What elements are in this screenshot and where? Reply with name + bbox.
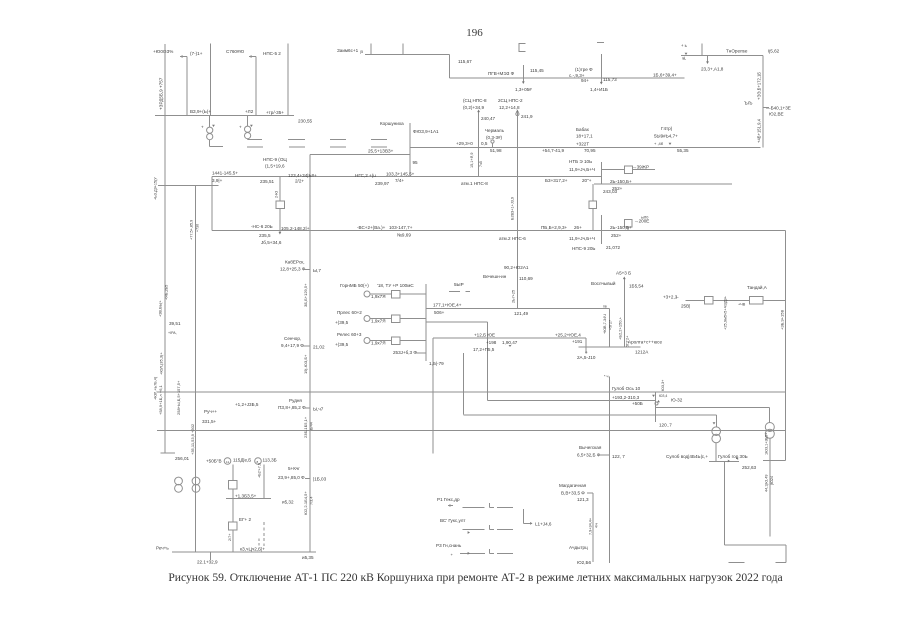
svg-text:115,45: 115,45 — [530, 68, 544, 73]
legend connector — [522, 509, 524, 523]
line 414 right — [464, 414, 717, 416]
svg-text:Бабах: Бабах — [576, 127, 590, 132]
svg-text:+50Б: +50Б — [632, 401, 643, 406]
svg-text:|Ю24: |Ю24 — [770, 476, 774, 485]
wire drop 724 L-shape — [723, 461, 725, 545]
svg-text:Сенчор,: Сенчор, — [284, 336, 301, 341]
svg-text:Ю2,Б6: Ю2,Б6 — [577, 560, 591, 565]
wire vertical trunk left — [309, 154, 311, 552]
svg-text:121,49: 121,49 — [514, 311, 528, 316]
svg-text:51,98: 51,98 — [490, 148, 502, 153]
svg-text:2Ь-150,Б+: 2Ь-150,Б+ — [610, 225, 632, 230]
transformer coil TL2 — [245, 126, 251, 132]
svg-text:+77,5+,85,9: +77,5+,85,9 — [190, 220, 194, 240]
svg-text:НГС,2 +(u: НГС,2 +(u — [355, 173, 376, 178]
svg-text:кЗ,чЦч2,Б|+: кЗ,чЦч2,Б|+ — [240, 547, 265, 552]
svg-text:L1+J4,6: L1+J4,6 — [535, 521, 552, 526]
svg-text:243,03: 243,03 — [603, 189, 617, 194]
transformer T2 — [192, 477, 200, 485]
svg-text:Рисунок 59. Отключение АТ-1 ПС: Рисунок 59. Отключение АТ-1 ПС 220 кВ Ко… — [168, 571, 782, 584]
svg-text:2СЦ НПС-2: 2СЦ НПС-2 — [498, 98, 523, 103]
svg-text:+Ю0ОЗ%: +Ю0ОЗ% — [153, 49, 173, 54]
svg-text:ВЗ,9+(Ь(+: ВЗ,9+(Ь(+ — [190, 109, 211, 114]
svg-text:94+: 94+ — [581, 78, 589, 83]
svg-text:+35,11,53,9 +302: +35,11,53,9 +302 — [190, 423, 195, 455]
svg-text:—Б40,1+3Е: —Б40,1+3Е — [766, 106, 791, 111]
svg-text:+1,2+J3Б,5: +1,2+J3Б,5 — [235, 402, 259, 407]
wire drop 432 — [432, 338, 434, 454]
svg-text:+ЮВ,7-34Ч: +ЮВ,7-34Ч — [603, 314, 607, 334]
svg-text:+12,Б ЮЕ: +12,Б ЮЕ — [474, 333, 495, 338]
breaker Q7 — [228, 522, 237, 530]
bus 220kV lower A — [157, 391, 785, 393]
svg-text:ПБ,Б+2,9,3+: ПБ,Б+2,9,3+ — [541, 225, 568, 230]
svg-text:* ч: * ч — [604, 375, 609, 379]
svg-text:Ю3,3+: Ю3,3+ — [661, 379, 665, 391]
svg-text:+Б2,2+150,+: +Б2,2+150,+ — [618, 316, 623, 340]
wire tick 498 — [226, 498, 271, 500]
svg-text:+29,3+0: +29,3+0 — [456, 141, 473, 146]
svg-text:+тр/-35+: +тр/-35+ — [266, 110, 284, 115]
svg-text:5ЫР: 5ЫР — [454, 282, 464, 287]
wire tap with bracket — [522, 65, 524, 83]
svg-text:С760#Ю: С760#Ю — [226, 49, 245, 54]
svg-text:6,5+32,Б Ф: 6,5+32,Б Ф — [577, 453, 601, 458]
wire V1 end tick — [161, 452, 176, 454]
svg-text:103,3+145,5+: 103,3+145,5+ — [386, 171, 415, 176]
svg-text:атм.1 НПС-8: атм.1 НПС-8 — [461, 181, 488, 186]
svg-text:26+: 26+ — [574, 225, 582, 230]
svg-text:+25,2+ЮЕ,4: +25,2+ЮЕ,4 — [555, 333, 581, 338]
svg-text:2/2+: 2/2+ — [295, 178, 304, 183]
line to Тандай — [686, 299, 705, 301]
svg-text:1Б,6+39,4+: 1Б,6+39,4+ — [653, 73, 677, 78]
svg-text:+3+2,3̶: +3+2,3̶ — [663, 294, 679, 299]
svg-text:+4Б+151,9,4: +4Б+151,9,4 — [757, 118, 762, 143]
svg-text:7/3,4: 7/3,4 — [310, 497, 314, 505]
bus 220kV lower B — [157, 430, 785, 432]
svg-text:1,4+И1Б: 1,4+И1Б — [590, 87, 608, 92]
svg-text:+Б2'+7,9: +Б2'+7,9 — [258, 463, 262, 478]
wire tap below — [600, 215, 602, 244]
breaker Q2 — [589, 201, 597, 209]
svg-text:Ю-32: Ю-32 — [671, 397, 683, 402]
wire dashdot drop — [263, 522, 265, 546]
wire vertical feeder V5 — [287, 43, 289, 115]
svg-text:Рудня: Рудня — [289, 398, 302, 403]
svg-text:ЕГ+ 2: ЕГ+ 2 — [239, 517, 252, 522]
svg-text:НПС-9 20Ь: НПС-9 20Ь — [572, 246, 595, 251]
svg-text:1,3+05#: 1,3+05# — [515, 87, 532, 92]
meter M1 — [224, 458, 231, 465]
wire corner drop — [448, 55, 450, 79]
svg-text:+ЗРД5Б,9 +757: +ЗРД5Б,9 +757 — [159, 77, 164, 110]
svg-text:Заим6с+1: Заим6с+1 — [337, 48, 359, 53]
svg-text:+191: +191 — [572, 339, 583, 344]
autotransformer AT1 — [712, 427, 721, 436]
device Тандай box — [750, 297, 763, 305]
svg-text:-ВС+2+(Ва.)+: -ВС+2+(Ва.)+ — [357, 225, 386, 230]
svg-text:177,1+ЮЕ,4+: 177,1+ЮЕ,4+ — [433, 303, 462, 308]
svg-text:ыЛ0: ыЛ0 — [641, 216, 648, 220]
svg-text:2Ь-150,Б+: 2Ь-150,Б+ — [610, 179, 632, 184]
svg-text:1Б5,54: 1Б5,54 — [629, 284, 644, 289]
svg-text:11: 11 — [226, 460, 229, 464]
wire long vertical right — [762, 55, 764, 147]
wire Аролта line — [579, 346, 641, 348]
breaker Q6 — [228, 480, 237, 489]
svg-text:+: + — [239, 125, 242, 130]
wire tick 460 — [763, 460, 785, 462]
svg-text:17,2+П5,5: 17,2+П5,5 — [473, 347, 495, 352]
svg-text:2А,5-J10: 2А,5-J10 — [577, 355, 596, 360]
svg-text:ПГВ+МЭЗ Ф: ПГВ+МЭЗ Ф — [488, 71, 515, 76]
svg-text:+ІРА,: +ІРА, — [168, 331, 177, 335]
svg-text:240,47: 240,47 — [481, 116, 495, 121]
svg-text:70,95: 70,95 — [584, 148, 596, 153]
autotransformer AT2 — [765, 423, 774, 432]
bus top middle — [365, 54, 450, 56]
svg-text:'18, ТУ +Р 100мС: '18, ТУ +Р 100мС — [377, 283, 414, 288]
svg-text:1212А: 1212А — [635, 349, 649, 354]
wire drop 463 — [463, 353, 465, 415]
svg-text:атм.2 НПС-6: атм.2 НПС-6 — [499, 236, 526, 241]
wire drop Q2 — [592, 184, 594, 230]
svg-text:ЪЉ: ЪЉ — [744, 101, 753, 106]
svg-text:7/4+: 7/4+ — [395, 178, 404, 183]
wire drop 586 — [585, 338, 587, 352]
svg-text:+ ,4б: + ,4б — [654, 141, 664, 146]
svg-text:12,2+14,8: 12,2+14,8 — [499, 105, 520, 110]
svg-text:22.1+32,9: 22.1+32,9 — [197, 560, 218, 565]
wire Коршуниха drop — [409, 123, 411, 177]
svg-text:115,73: 115,73 — [603, 77, 617, 82]
svg-text:+ЗВ,БЬ(+: +ЗВ,БЬ(+ — [159, 300, 163, 317]
svg-text:+322Т: +322Т — [576, 142, 589, 147]
svg-text:(7-)1+: (7-)1+ — [190, 51, 203, 56]
svg-text:+5Г27: +5Г27 — [609, 320, 613, 330]
svg-text:-НС-6 20Ь: -НС-6 20Ь — [251, 224, 273, 229]
svg-text:Jб,5+34,6: Jб,5+34,6 — [261, 240, 282, 245]
wire vertical feeder V1 — [164, 44, 166, 453]
wire dash segment — [449, 291, 460, 293]
svg-text:7ч5: 7ч5 — [479, 161, 483, 167]
svg-text:Реч+ь: Реч+ь — [156, 546, 169, 551]
svg-text:+ЯБ,2Б5: +ЯБ,2Б5 — [165, 285, 169, 300]
svg-text:121,3: 121,3 — [577, 497, 589, 502]
svg-text:2/7+: 2/7+ — [228, 533, 232, 541]
wire dash 562 — [729, 561, 745, 563]
bus station 308 — [426, 308, 609, 310]
bus 110kV top — [449, 77, 684, 79]
wire drop НПС-8 — [478, 111, 480, 177]
wire tap НТБ — [600, 162, 602, 184]
wire drop Вослчывый — [623, 279, 625, 347]
svg-text:+50Б"В: +50Б"В — [206, 459, 222, 464]
svg-text:2Ь7+25: 2Ь7+25 — [512, 290, 516, 303]
branch tick Б40 — [763, 107, 769, 109]
wire vertical feeder V2 with arrow — [186, 57, 188, 116]
svg-text:(СЦ НПС-8: (СЦ НПС-8 — [463, 98, 487, 103]
breaker Q5 — [704, 296, 713, 304]
svg-text:+Л2: +Л2 — [245, 109, 254, 114]
svg-text:18+17,1: 18+17,1 — [576, 134, 593, 139]
svg-text:19|-ЮЗ,Б+: 19|-ЮЗ,Б+ — [303, 354, 308, 374]
bus 110kV left — [155, 115, 294, 117]
svg-text:15,1+Я,9: 15,1+Я,9 — [470, 152, 474, 168]
svg-text:(0,3-3#): (0,3-3#) — [486, 135, 503, 140]
svg-text:и5,35: и5,35 — [302, 555, 314, 560]
wire drop Вычегская — [609, 377, 611, 563]
svg-text:103-147,7+: 103-147,7+ — [389, 225, 413, 230]
svg-text:258+Ы,Б,5+157,5+: 258+Ы,Б,5+157,5+ — [176, 380, 181, 415]
svg-text:Коршуниха: Коршуниха — [380, 121, 404, 126]
svg-text:25В|: 25В| — [681, 304, 690, 309]
svg-text:23Б-1Б5,1+: 23Б-1Б5,1+ — [303, 416, 308, 438]
wire drop 487 — [487, 322, 489, 401]
svg-text:2-Ю: 2-Ю — [275, 191, 279, 198]
svg-text:239,97: 239,97 — [375, 181, 389, 186]
wire stub tick1 — [370, 43, 372, 54]
svg-text:Ю2,2-1Б4,5+: Ю2,2-1Б4,5+ — [303, 491, 308, 515]
svg-text:+193,2-310,3: +193,2-310,3 — [612, 395, 640, 400]
svg-text:1,Б|-79: 1,Б|-79 — [429, 361, 444, 366]
wire drop meter1 — [232, 465, 234, 553]
svg-text:+1,3БЗ,5+: +1,3БЗ,5+ — [235, 494, 257, 499]
bus 110kV middle — [212, 176, 602, 178]
svg-text:23,9+,85,0 Ф: 23,9+,85,0 Ф — [278, 475, 305, 480]
svg-text:ПЗ,8+,85,2 Ф: ПЗ,8+,85,2 Ф — [278, 405, 306, 410]
svg-text:1,9х7Я: 1,9х7Я — [371, 319, 386, 324]
wire drop 716 — [715, 415, 717, 427]
svg-text:4/ч: 4/ч — [595, 523, 599, 528]
wire tick bottom — [209, 552, 211, 560]
svg-text:(1,5+19,6: (1,5+19,6 — [265, 164, 285, 169]
svg-text:196: 196 — [466, 27, 483, 39]
svg-text:Прлес 60+2: Прлес 60+2 — [337, 310, 362, 315]
wire left link — [158, 184, 219, 186]
svg-text:11,9+Jч,Б+Ч: 11,9+Jч,Б+Ч — [569, 236, 595, 241]
svg-text:Б2ВЗ+1+J3,9: Б2ВЗ+1+J3,9 — [511, 197, 515, 220]
wire vertical feeder V4 with arrow — [255, 57, 257, 116]
wire drop НПС-2 long — [516, 111, 518, 309]
svg-text:90,2+Ю2А1: 90,2+Ю2А1 — [504, 265, 529, 270]
svg-text:Ы,7: Ы,7 — [313, 268, 321, 273]
svg-text:5+Кчг: 5+Кчг — [288, 466, 300, 471]
svg-text:3,9|+: 3,9|+ — [212, 178, 223, 183]
svg-text:20"+: 20"+ — [582, 178, 592, 183]
svg-text:1441-145,5+: 1441-145,5+ — [212, 170, 238, 175]
line 400 right — [488, 399, 656, 401]
svg-text:Ij5,62: Ij5,62 — [768, 49, 780, 54]
breaker Q4 — [625, 220, 633, 227]
svg-text:ФЮЗ,9+1А1: ФЮЗ,9+1А1 — [413, 129, 439, 134]
svg-text:21,072: 21,072 — [606, 245, 620, 250]
svg-text:→39ЖР: →39ЖР — [632, 165, 649, 170]
svg-text:55,35: 55,35 — [677, 148, 689, 153]
meter M2 — [255, 458, 262, 465]
svg-text:95: 95 — [413, 160, 419, 165]
node cluster — [652, 395, 655, 397]
svg-text:Р3 Гн,снань: Р3 Гн,снань — [436, 543, 462, 548]
svg-text:+54,7-41,9: +54,7-41,9 — [542, 148, 565, 153]
transformer T1 — [175, 477, 183, 485]
svg-text:115Дle,Б: 115Дle,Б — [233, 458, 251, 463]
svg-text:0,5: 0,5 — [481, 141, 488, 146]
svg-text:Р1 Гекс,др: Р1 Гекс,др — [437, 497, 460, 502]
svg-text:Аролта+с++юсе: Аролта+с++юсе — [628, 339, 662, 344]
svg-text:+ЮЛ,+Ь7Б,4(: +ЮЛ,+Ь7Б,4( — [154, 376, 158, 400]
svg-text:1,9х7Я: 1,9х7Я — [371, 294, 386, 299]
svg-text:Гулоб гор 30Ь: Гулоб гор 30Ь — [718, 454, 748, 459]
svg-text:12,8+25,3 Ф: 12,8+25,3 Ф — [280, 267, 306, 272]
breaker Q1 — [276, 201, 285, 209]
svg-text:11,9+Jч,Б+Ч: 11,9+Jч,Б+Ч — [569, 167, 595, 172]
svg-text:Вычегская: Вычегская — [579, 445, 602, 450]
svg-text:ТнОрелsе: ТнОрелsе — [726, 49, 748, 54]
svg-text:7,9+34,4+: 7,9+34,4+ — [589, 517, 593, 535]
svg-text:+ ь: + ь — [681, 43, 688, 48]
wire stub tick2 — [402, 43, 404, 54]
svg-text:21,02: 21,02 — [313, 345, 325, 350]
wire right trunk down — [784, 231, 786, 461]
bus top right — [681, 54, 763, 56]
bus 110kV second — [594, 183, 732, 185]
svg-text:НТБ Э 10Ь: НТБ Э 10Ь — [569, 159, 592, 164]
svg-text:Ю2,ВЕ: Ю2,ВЕ — [769, 112, 784, 117]
svg-text:+(39,5: +(39,5 — [335, 320, 349, 325]
svg-text:110,69: 110,69 — [519, 276, 533, 281]
svg-text:+(39,5: +(39,5 — [335, 342, 349, 347]
svg-text:9,4+17,9 Ф: 9,4+17,9 Ф — [281, 343, 304, 348]
bus 110kV third — [212, 230, 786, 232]
load arrow 23,3 — [707, 55, 709, 62]
svg-text:1Ю3,1+3Б5+: 1Ю3,1+3Б5+ — [765, 432, 769, 455]
wire drop 609 end — [609, 309, 611, 347]
svg-text:ГорнМБ 50(+): ГорнМБ 50(+) — [340, 283, 369, 288]
svg-text:Сулоб вод|4Б4Ь|с,+: Сулоб вод|4Б4Ь|с,+ — [666, 454, 708, 459]
svg-text:113,3Б: 113,3Б — [263, 458, 277, 463]
wire drop switch SW1 — [279, 177, 281, 233]
svg-text:+58,9+1Б,л +6,1: +58,9+1Б,л +6,1 — [158, 384, 163, 415]
svg-text:Б3+317,2+: Б3+317,2+ — [545, 178, 568, 183]
svg-text:Магдагачная: Магдагачная — [559, 483, 587, 488]
svg-text:Ачдытрц: Ачдытрц — [569, 545, 588, 550]
wire drop 655 — [655, 392, 657, 422]
svg-text:235,5: 235,5 — [259, 233, 271, 238]
svg-text:ЗБ,Б+129,5+: ЗБ,Б+129,5+ — [303, 283, 308, 307]
svg-text:+: + — [201, 125, 204, 130]
svg-text:+ЧВ: +ЧВ — [738, 303, 746, 307]
svg-text:и5,32: и5,32 — [282, 500, 294, 505]
svg-text:ЮЗ,4: ЮЗ,4 — [659, 394, 667, 398]
svg-text:ВС' Гукс,улт: ВС' Гукс,улт — [440, 518, 466, 523]
svg-text:256,01: 256,01 — [175, 456, 189, 461]
svg-text:+198: +198 — [486, 340, 497, 345]
svg-text:+ЬЗ,Д9+15(У: +ЬЗ,Д9+15(У — [154, 177, 158, 200]
wire gen tie 321 — [426, 321, 487, 323]
svg-text:НПС-5 2: НПС-5 2 — [263, 51, 281, 56]
svg-text:В,В+33,5 Ф: В,В+33,5 Ф — [561, 491, 585, 496]
svg-text:НПС-9 (ОЦ: НПС-9 (ОЦ — [263, 157, 287, 162]
svg-text:+ЮЛ,(35,3(+: +ЮЛ,(35,3(+ — [159, 352, 164, 375]
svg-text:пв: пв — [603, 304, 607, 308]
svg-text:230,55: 230,55 — [298, 119, 312, 124]
dashed tie line upper — [288, 138, 305, 140]
svg-text:123,4+34|Ь#+: 123,4+34|Ь#+ — [288, 173, 317, 178]
svg-text:253J+б,3 Ф: 253J+б,3 Ф — [393, 350, 417, 355]
svg-text:Гулоб Ось 10: Гулоб Ось 10 — [612, 386, 641, 391]
svg-text:122, 7: 122, 7 — [612, 454, 625, 459]
svg-text:№9,69: №9,69 — [397, 233, 411, 238]
svg-text:1,9х7Я: 1,9х7Я — [371, 341, 386, 346]
svg-text:Г4тр): Г4тр) — [661, 126, 673, 131]
wire tap arrow down — [600, 54, 602, 82]
svg-text:39,51: 39,51 — [169, 321, 181, 326]
breaker Q3 — [625, 166, 633, 173]
wire stub tick3 — [701, 44, 703, 56]
svg-text:44,1|Ю,49: 44,1|Ю,49 — [765, 475, 769, 493]
svg-text:331,5+: 331,5+ — [202, 419, 216, 424]
wire drop meter2 — [263, 465, 265, 499]
svg-text:Вослчывый: Вослчывый — [591, 280, 616, 286]
svg-text:506+: 506+ — [434, 310, 445, 315]
svg-text:Ы,ч7: Ы,ч7 — [313, 407, 324, 412]
bus bottom left — [172, 551, 316, 553]
svg-text:|1Б,03: |1Б,03 — [313, 477, 327, 482]
svg-text:А5+3 Б: А5+3 Б — [616, 271, 631, 276]
svg-text:В/44: В/44 — [310, 422, 314, 430]
svg-text:235,51: 235,51 — [260, 179, 274, 184]
svg-text:|5: |5 — [360, 50, 363, 54]
svg-text:+ЗБ,9+15В: +ЗБ,9+15В — [780, 310, 785, 330]
svg-text:23,3+,А1,8: 23,3+,А1,8 — [701, 67, 724, 72]
svg-text:Чермаль: Чермаль — [485, 128, 505, 133]
wire vertical feeder V3 — [209, 44, 211, 116]
wire jog left — [310, 153, 410, 155]
transformer coil TL1 — [207, 127, 213, 133]
svg-text:120..7: 120..7 — [659, 423, 672, 428]
svg-text:5Ы9#Ь4,7+: 5Ы9#Ь4,7+ — [654, 134, 678, 139]
svg-text:|Б: |Б — [682, 56, 686, 60]
dashed tie line lower — [247, 146, 263, 148]
bus station 338 — [433, 337, 586, 339]
svg-text:+25,9м5ч5+ЧЗД9+: +25,9м5ч5+ЧЗД9+ — [723, 295, 728, 330]
svg-text:115,67: 115,67 — [458, 59, 472, 64]
bus 220kV Коршуниха — [410, 146, 761, 148]
svg-text:Тандай,А: Тандай,А — [747, 284, 768, 290]
svg-text:Релес 60+3: Релес 60+3 — [337, 332, 362, 337]
svg-text:241,9: 241,9 — [521, 114, 533, 119]
svg-text:Вечешн-ин: Вечешн-ин — [483, 274, 507, 279]
svg-text:(0,2)+34,9: (0,2)+34,9 — [463, 105, 485, 110]
wire left trunk — [195, 185, 197, 552]
svg-text:252,63: 252,63 — [742, 465, 756, 470]
svg-text:Руч++: Руч++ — [204, 409, 217, 414]
svg-text:+ЭЭ,Б+172,1Б: +ЭЭ,Б+172,1Б — [757, 72, 762, 100]
wire generator bus — [425, 284, 427, 361]
wire drop 769 upper — [769, 407, 771, 422]
wire bus tie left — [211, 177, 213, 231]
svg-text:252+: 252+ — [611, 233, 622, 238]
svg-text:1,90,47: 1,90,47 — [502, 340, 518, 345]
svg-text:КабЕРск,: КабЕРск, — [285, 260, 305, 265]
svg-text:25,5+1ЗВЗ+: 25,5+1ЗВЗ+ — [368, 149, 394, 154]
line 406 right — [656, 406, 770, 408]
svg-text:(1)тре Ф: (1)тре Ф — [575, 67, 593, 72]
